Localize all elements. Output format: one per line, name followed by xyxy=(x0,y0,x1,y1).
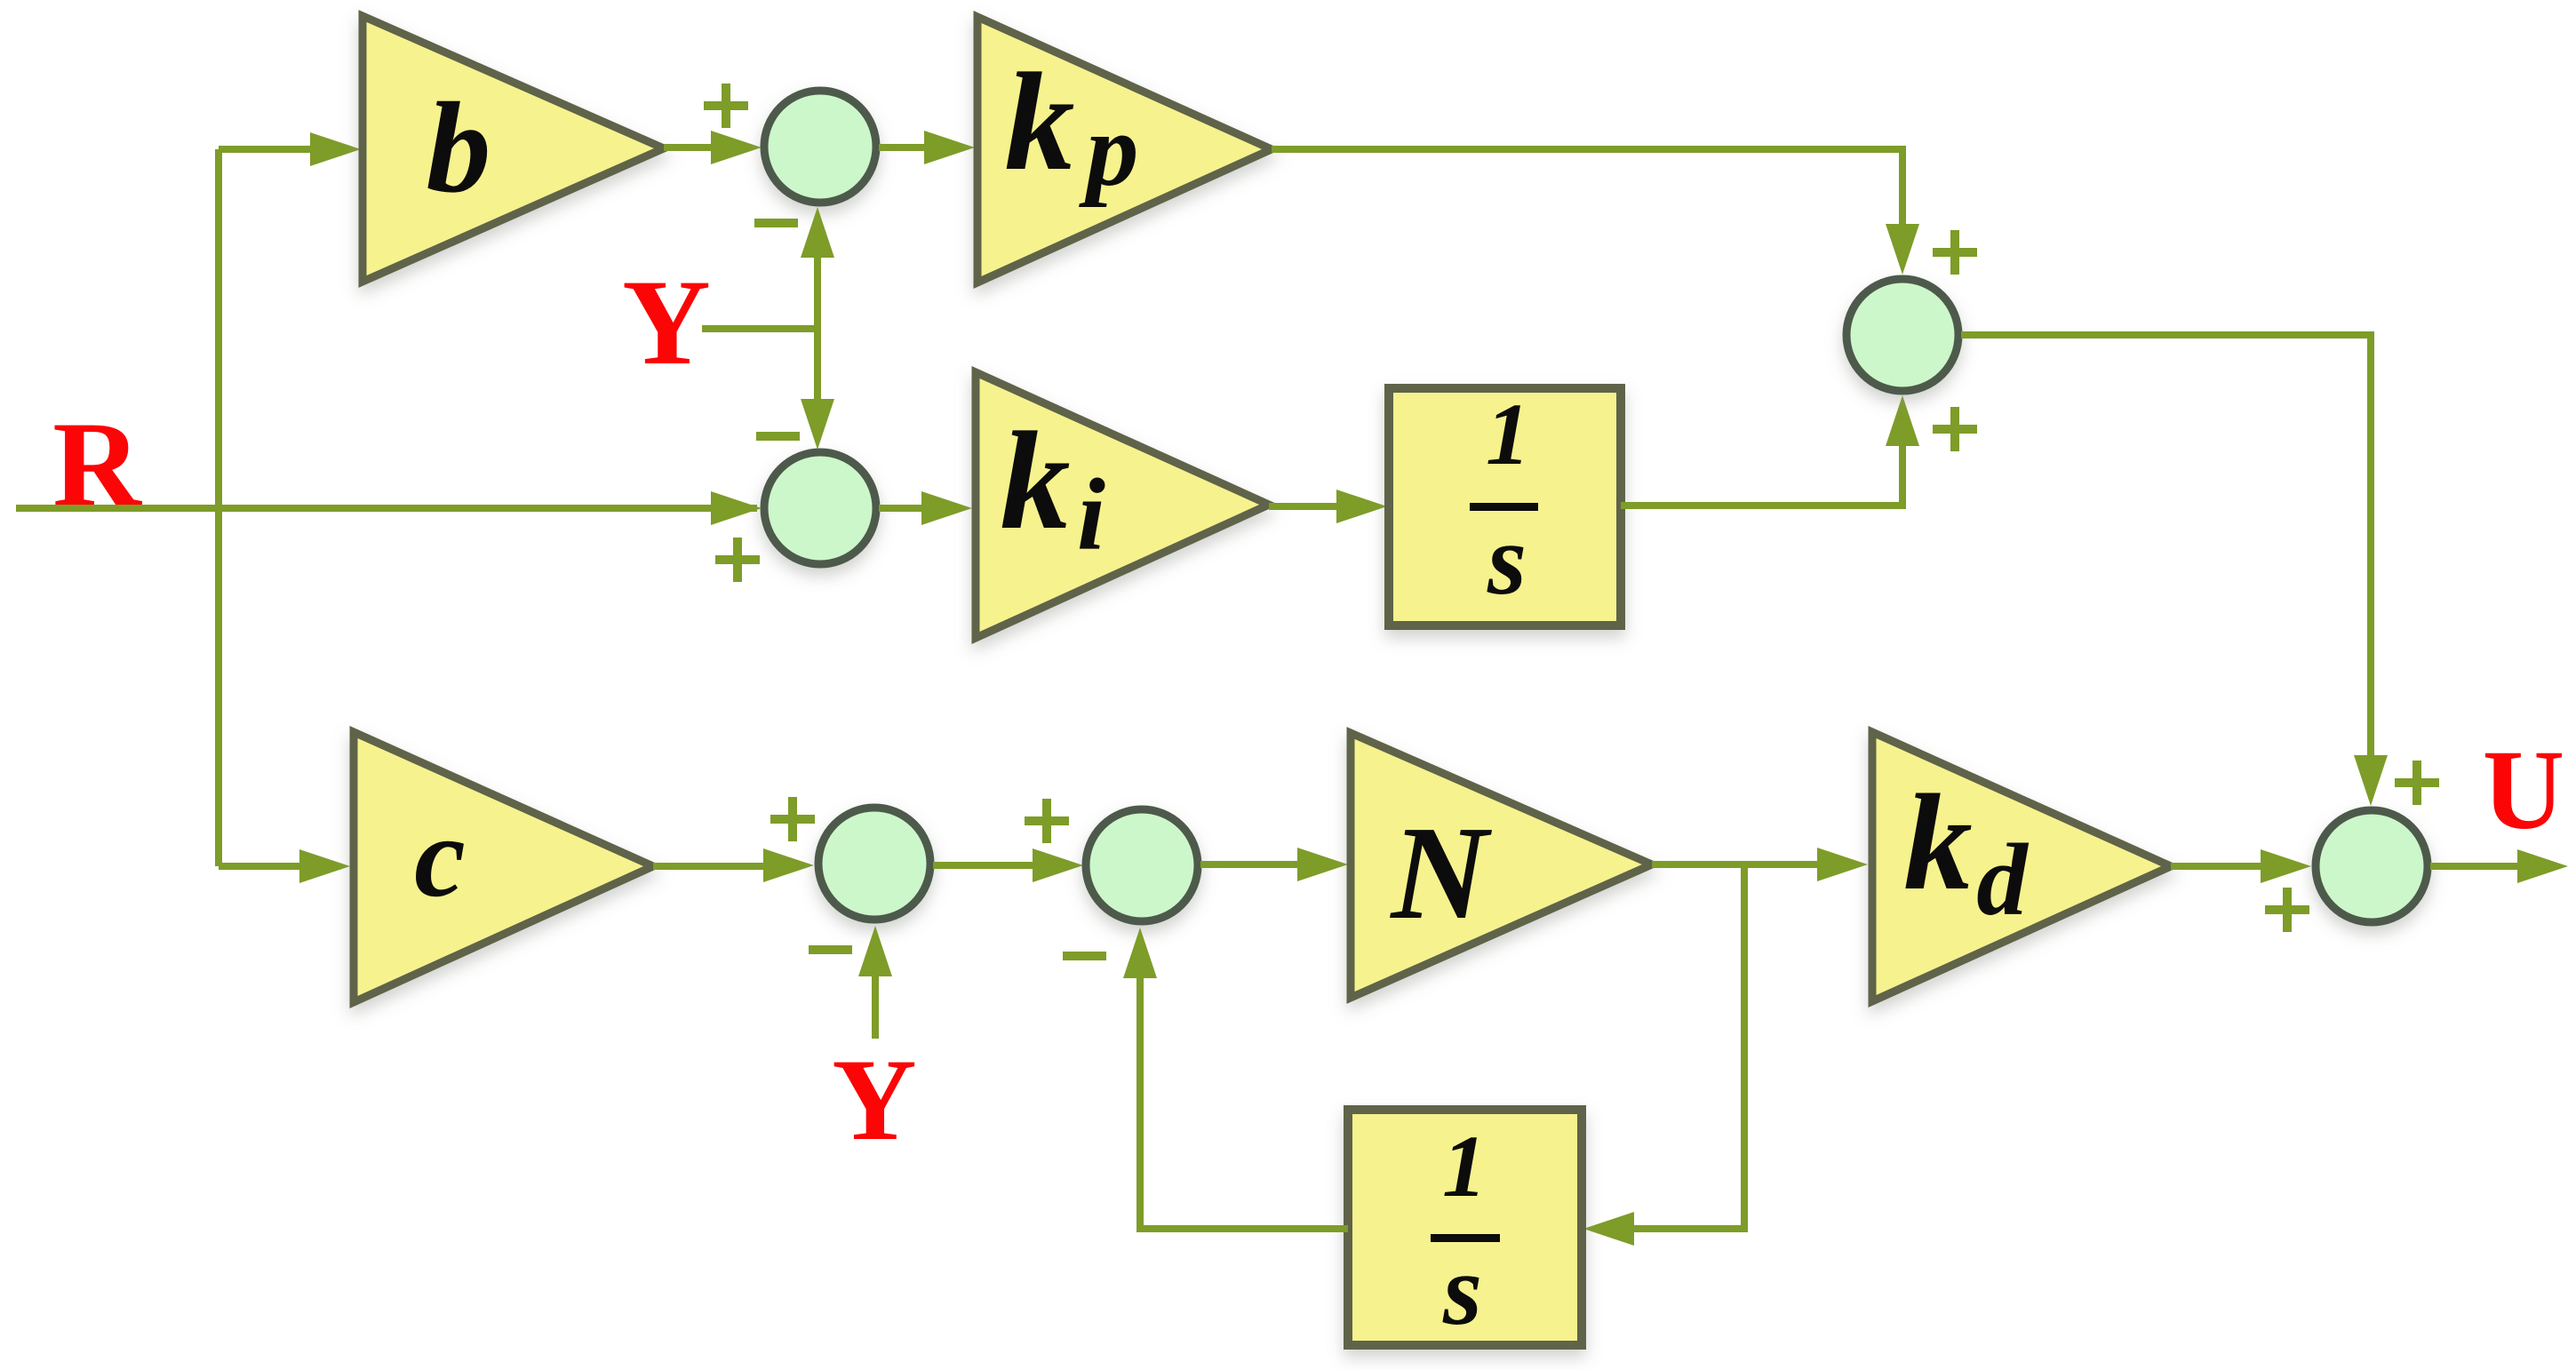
wire S5 to summing junction S6 with arrow xyxy=(933,862,1033,869)
wire Y horizontal xyxy=(702,325,817,332)
svg-text:s: s xyxy=(1487,505,1527,616)
gain c triangle xyxy=(354,732,653,1002)
arrow down into S2 top xyxy=(801,399,834,450)
integrator bottom fraction bar xyxy=(1431,1234,1500,1242)
wire R to gain b with arrow xyxy=(219,146,313,153)
summing junction S4 xyxy=(2316,810,2428,922)
summing junction S2 xyxy=(764,452,876,564)
plus sign at S1 input xyxy=(704,84,748,128)
wire bottom integrator to S6 bottom with corner and arrow xyxy=(1140,976,1348,1229)
wire N to gain kd with arrow xyxy=(1652,861,1819,868)
wire c to summing junction S5 with arrow xyxy=(653,863,766,870)
wire kd to summing junction S4 with arrow xyxy=(2171,863,2263,870)
wire Y bottom vertical with arrow into S5 xyxy=(872,975,879,1039)
integrator 1/s box top xyxy=(1389,388,1621,625)
svg-text:d: d xyxy=(1976,824,2029,936)
plus sign at S6 left input xyxy=(1025,799,1069,843)
gain ki triangle xyxy=(976,372,1269,638)
wire S1 to gain kp with arrow xyxy=(879,144,926,151)
minus sign at S6 bottom input xyxy=(1063,952,1106,960)
plus sign at S5 left input xyxy=(770,797,815,841)
arrow left into bottom integrator xyxy=(1583,1212,1634,1246)
summing junction S6 xyxy=(1086,809,1198,921)
svg-text:Y: Y xyxy=(832,1034,916,1165)
gain b triangle xyxy=(363,16,664,282)
svg-text:1: 1 xyxy=(1442,1117,1487,1215)
plus sign at S2 left input xyxy=(715,538,760,582)
gain kd triangle xyxy=(1872,732,2171,1001)
wire S6 to gain N with arrow xyxy=(1200,861,1299,868)
svg-text:k: k xyxy=(1001,403,1071,559)
wire S2 to gain ki with arrow xyxy=(879,505,922,512)
wire R input horizontal xyxy=(16,505,757,512)
summing junction S3 xyxy=(1846,279,1958,391)
arrow up into S1 bottom xyxy=(801,207,834,258)
svg-text:s: s xyxy=(1442,1235,1482,1346)
minus sign at S2 top input xyxy=(756,432,800,441)
wire R branch vertical xyxy=(215,149,222,866)
wire R to gain c with arrow xyxy=(219,863,302,870)
minus sign at S5 bottom input xyxy=(809,945,852,954)
integrator 1/s box bottom xyxy=(1348,1110,1582,1345)
svg-text:b: b xyxy=(427,76,491,219)
wire b to summing junction S1 with arrow xyxy=(664,144,713,151)
gain kp triangle xyxy=(977,17,1272,283)
svg-text:k: k xyxy=(1005,44,1075,200)
svg-text:p: p xyxy=(1079,92,1139,208)
wire integrator to S3 bottom with corner and arrow xyxy=(1621,444,1902,506)
svg-text:N: N xyxy=(1389,798,1492,947)
wire junction N output down to bottom integrator xyxy=(1634,864,1744,1229)
svg-text:U: U xyxy=(2483,727,2564,853)
summing junction S5 xyxy=(818,808,930,920)
svg-text:Y: Y xyxy=(622,254,711,390)
plus sign at S4 left input xyxy=(2265,888,2309,932)
wire Y vertical to S1 and S2 xyxy=(814,256,821,402)
wire S4 output U with arrow xyxy=(2430,863,2519,870)
summing junction S1 xyxy=(764,91,876,203)
minus sign at S1 bottom input xyxy=(754,219,798,227)
wire S3 to S4 with corner and arrow xyxy=(1961,335,2371,757)
svg-text:c: c xyxy=(414,793,466,921)
svg-text:1: 1 xyxy=(1486,385,1530,483)
svg-text:k: k xyxy=(1903,766,1973,919)
svg-text:R: R xyxy=(52,396,142,532)
plus sign at S4 top input xyxy=(2395,761,2439,805)
wire ki to integrator box with arrow xyxy=(1269,503,1338,510)
wire kp output to summing junction S3 with corner and arrow xyxy=(1272,149,1902,226)
arrow into S2 from R line xyxy=(711,491,762,525)
plus sign at S3 bottom input xyxy=(1933,407,1977,451)
integrator top fraction bar xyxy=(1470,503,1538,511)
plus sign at S3 top input xyxy=(1933,230,1977,275)
svg-text:i: i xyxy=(1077,458,1105,571)
gain N triangle xyxy=(1351,733,1652,998)
